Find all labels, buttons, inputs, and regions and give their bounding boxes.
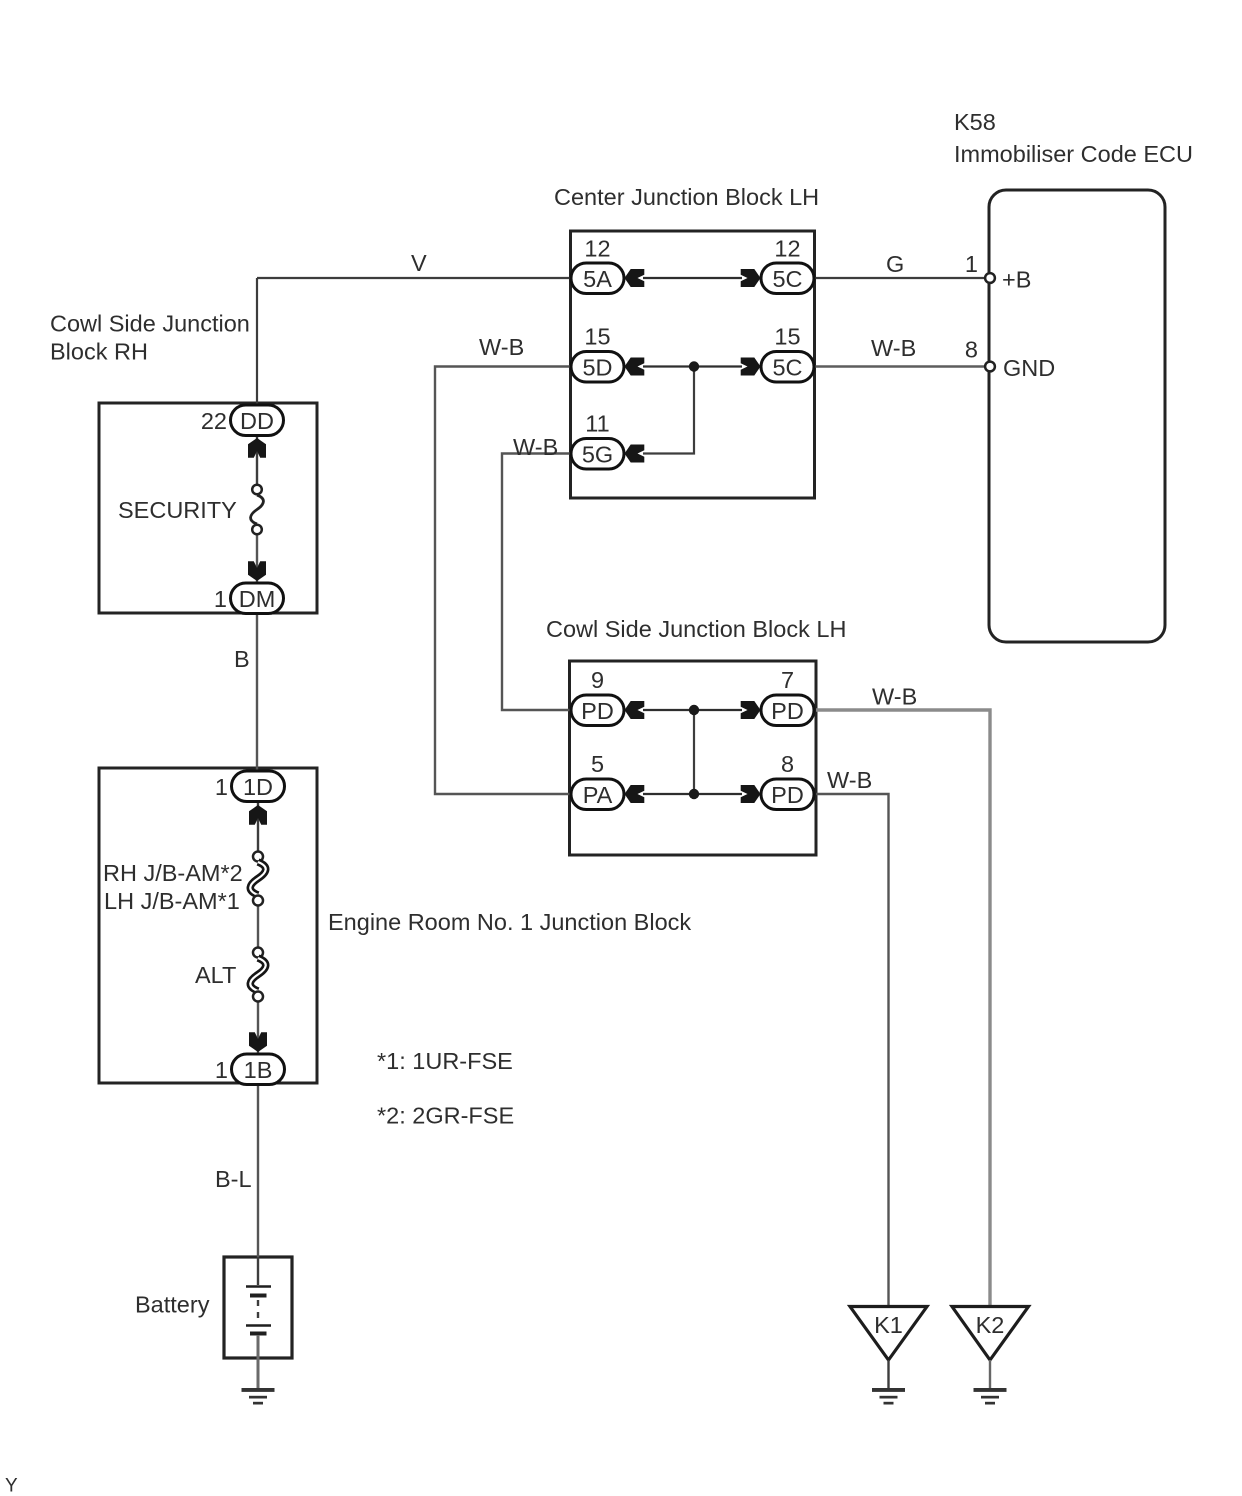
svg-text:SECURITY: SECURITY [118, 497, 237, 523]
svg-text:Cowl Side Junction: Cowl Side Junction [50, 311, 250, 337]
arrow up below 1D [249, 805, 267, 825]
connector 5C pin 12 [761, 236, 814, 294]
svg-text:DD: DD [240, 408, 274, 434]
connector 5D pin 15 [571, 324, 624, 383]
svg-text:W-B: W-B [513, 434, 558, 460]
connector 1B pin 1 [215, 1054, 285, 1085]
svg-text:9: 9 [591, 667, 604, 693]
arrow at 5D [625, 358, 645, 376]
wire PA to PD8 [643, 793, 742, 795]
svg-text:Y: Y [5, 1476, 18, 1496]
wire ALT link to 1B [257, 1002, 259, 1055]
connector PD pin 9 [571, 667, 624, 726]
battery plate long 2 [246, 1324, 271, 1327]
wire 5A to 5C row1 [643, 277, 742, 279]
wire 5D to 5C row2 [643, 365, 742, 367]
svg-text:5C: 5C [772, 354, 802, 380]
svg-text:8: 8 [965, 337, 978, 363]
battery bottom wire to ground [257, 1335, 260, 1389]
svg-text:22: 22 [201, 408, 227, 434]
wire G: 5C to ECU pin 1 [814, 277, 985, 279]
junction node dot [689, 361, 699, 371]
wire B-L: 1B to battery [257, 1084, 259, 1257]
svg-text:W-B: W-B [479, 334, 524, 360]
battery plate short 1 [250, 1294, 267, 1298]
svg-text:11: 11 [585, 411, 609, 437]
svg-text:PD: PD [771, 698, 804, 724]
junction node dot LH row1 [689, 705, 699, 715]
connector 5C pin 15 [761, 324, 814, 383]
connector PD pin 7 [761, 667, 814, 726]
svg-text:15: 15 [774, 324, 800, 350]
wire PD9 to PD7 [643, 709, 742, 711]
svg-text:W-B: W-B [871, 335, 916, 361]
svg-text:PD: PD [771, 782, 804, 808]
svg-text:5A: 5A [583, 266, 612, 292]
svg-text:GND: GND [1003, 355, 1055, 381]
block Center Junction Block LH [554, 184, 819, 498]
wire between fusible links [257, 905, 259, 947]
wire DD to fuse [256, 435, 258, 484]
svg-text:W-B: W-B [872, 684, 917, 710]
arrow at 5G [625, 445, 645, 463]
arrow at 5A [625, 269, 645, 287]
wire 1D to fusible link [257, 801, 259, 851]
ground battery [242, 1388, 275, 1405]
svg-text:Center Junction Block LH: Center Junction Block LH [554, 184, 819, 210]
ground K2 [974, 1388, 1007, 1405]
ground K1 [872, 1388, 905, 1405]
svg-text:*1: 1UR-FSE: *1: 1UR-FSE [377, 1048, 513, 1074]
battery plate long 1 [246, 1285, 271, 1288]
wire W-B PD7 to K2 [816, 710, 990, 1307]
svg-text:12: 12 [774, 236, 800, 262]
svg-text:Engine Room No. 1 Junction Blo: Engine Room No. 1 Junction Block [328, 909, 691, 935]
battery plate short 2 [250, 1332, 267, 1336]
arrow at 5C row1 [741, 269, 761, 287]
svg-text:K1: K1 [874, 1312, 903, 1338]
svg-text:5C: 5C [772, 266, 802, 292]
wire junction vertical to 5G row [643, 367, 694, 454]
block Cowl Side Junction Block RH [50, 311, 317, 614]
svg-text:1: 1 [965, 251, 978, 277]
connector PD pin 8 [761, 751, 814, 810]
svg-text:Cowl Side Junction Block LH: Cowl Side Junction Block LH [546, 616, 846, 642]
svg-text:PA: PA [583, 782, 613, 808]
wire V horizontal [257, 277, 572, 279]
svg-text:K2: K2 [976, 1312, 1005, 1338]
ECU K58 Immobiliser Code ECU [954, 109, 1193, 642]
svg-text:K58: K58 [954, 109, 996, 135]
svg-text:B: B [234, 646, 250, 672]
fuse SECURITY [118, 485, 263, 535]
fusible link RH J/B-AM*2 LH J/B-AM*1 [103, 852, 266, 915]
svg-text:LH J/B-AM*1: LH J/B-AM*1 [104, 888, 240, 914]
svg-text:PD: PD [581, 698, 614, 724]
wire K1 to ground [887, 1360, 889, 1389]
wire junction vertical LH block [693, 710, 695, 794]
battery internal top wire [257, 1257, 259, 1285]
arrow at PA [625, 785, 645, 803]
wire B: DM to 1D [256, 613, 258, 772]
svg-text:1: 1 [215, 1057, 228, 1083]
arrow down above 1B [249, 1032, 267, 1052]
svg-text:5G: 5G [582, 441, 613, 467]
connector 5A pin 12 [571, 236, 624, 294]
battery dashed link [257, 1300, 259, 1324]
ECU pin 1 terminal +B [985, 267, 1031, 293]
svg-text:DM: DM [239, 586, 276, 612]
connector 5G pin 11 [571, 411, 624, 470]
wire W-B from 5G left down to PD9 [502, 454, 572, 711]
arrow up below DD [248, 438, 266, 458]
arrow at PD7 [741, 701, 761, 719]
svg-text:12: 12 [584, 236, 610, 262]
wire V vertical to DD [256, 278, 258, 406]
svg-text:5D: 5D [582, 354, 612, 380]
connector 1D pin 1 [215, 771, 285, 802]
wire K2 to ground [989, 1360, 991, 1389]
svg-text:8: 8 [781, 751, 794, 777]
block Engine Room No. 1 Junction Block [99, 768, 691, 1083]
battery box [135, 1257, 292, 1358]
svg-text:5: 5 [591, 751, 604, 777]
svg-text:Immobiliser Code ECU: Immobiliser Code ECU [954, 141, 1193, 167]
wire W-B PD8 to K1 [816, 794, 889, 1307]
svg-text:1: 1 [214, 586, 227, 612]
svg-text:V: V [411, 250, 427, 276]
connector DD pin 22 [201, 405, 284, 436]
svg-text:1: 1 [215, 774, 228, 800]
arrow at PD8 [741, 785, 761, 803]
arrow at PD9 [625, 701, 645, 719]
arrow down above DM [248, 561, 266, 581]
triangle K2 [952, 1307, 1029, 1361]
svg-text:1B: 1B [244, 1057, 273, 1083]
svg-text:1D: 1D [243, 774, 273, 800]
ECU pin 8 terminal GND [985, 355, 1055, 381]
junction node dot LH row2 [689, 789, 699, 799]
svg-text:B-L: B-L [215, 1166, 252, 1192]
svg-text:G: G [886, 251, 904, 277]
svg-text:15: 15 [584, 324, 610, 350]
connector DM pin 1 [214, 583, 284, 614]
wire fuse to DM [256, 535, 258, 584]
fusible link ALT [195, 948, 266, 1002]
svg-text:RH J/B-AM*2: RH J/B-AM*2 [103, 860, 243, 886]
svg-text:*2: 2GR-FSE: *2: 2GR-FSE [377, 1103, 514, 1129]
svg-text:ALT: ALT [195, 962, 236, 988]
wire W-B: 5C to ECU pin 8 [814, 365, 985, 368]
svg-text:Battery: Battery [135, 1292, 210, 1318]
arrow at 5C row2 [741, 358, 761, 376]
wire W-B from 5D left down to PA [435, 367, 572, 795]
triangle K1 [850, 1307, 927, 1361]
svg-text:Block RH: Block RH [50, 339, 148, 365]
svg-text:W-B: W-B [827, 767, 872, 793]
svg-text:+B: +B [1002, 267, 1031, 293]
svg-text:7: 7 [781, 667, 794, 693]
connector PA pin 5 [571, 751, 624, 810]
block Cowl Side Junction Block LH [546, 616, 846, 855]
